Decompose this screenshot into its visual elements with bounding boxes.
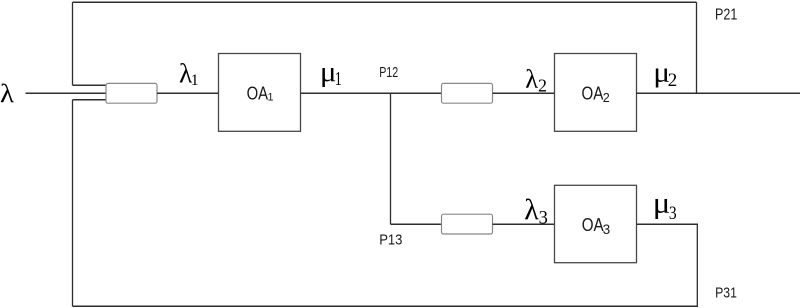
svg-text:1: 1 — [335, 68, 342, 90]
label lambda1 — [179, 59, 199, 89]
wire: stub from upper vertical into merge box — [73, 84, 107, 86]
wire: OA3 output horizontal — [637, 223, 699, 225]
block OA1 — [219, 54, 301, 132]
label lambda3 — [524, 193, 548, 228]
svg-text:OA: OA — [582, 214, 604, 235]
wire: top feedback P21 horizontal — [73, 1, 697, 3]
wire: P31 feedback vertical drop — [696, 224, 698, 306]
svg-text:λ: λ — [525, 64, 538, 94]
wire: P13 branch vertical — [390, 93, 392, 224]
svg-text:3: 3 — [603, 222, 611, 237]
wire: bottom feedback P31 horizontal — [73, 305, 699, 307]
merge box M1 (input combiner) — [106, 83, 157, 103]
svg-text:3: 3 — [539, 208, 548, 228]
svg-text:μ: μ — [320, 56, 337, 88]
svg-text:3: 3 — [669, 203, 677, 224]
svg-text:P12: P12 — [379, 64, 398, 81]
wire: merge box to OA1 — [157, 92, 219, 94]
label OA2 — [582, 83, 610, 105]
label mu3 — [653, 186, 677, 223]
svg-text:OA: OA — [582, 83, 605, 103]
svg-text:λ: λ — [0, 79, 15, 109]
merge box M2 (before OA2) — [442, 83, 493, 103]
label OA1 — [247, 83, 274, 103]
label mu2 — [653, 55, 677, 91]
label OA3 — [582, 214, 610, 237]
wire: OA1 output to splitter node P12 and on to merge box M2 — [301, 92, 442, 94]
svg-text:2: 2 — [538, 75, 547, 95]
wire: P21 feedback vertical riser — [696, 2, 698, 93]
wire: left vertical upper (top loop down to splitter) — [72, 2, 74, 85]
wire: merge box M3 to OA3 — [493, 223, 555, 225]
wire: lambda input line — [26, 92, 107, 94]
svg-text:P21: P21 — [715, 7, 737, 24]
merge box M3 (before OA3) — [442, 214, 493, 234]
wire: OA2 output to right edge — [636, 92, 800, 94]
wire: merge box M2 to OA2 — [493, 92, 555, 94]
wire: P13 branch horizontal into merge box M3 — [391, 223, 442, 225]
svg-text:1: 1 — [191, 72, 199, 89]
svg-text:2: 2 — [603, 91, 610, 105]
wire: left vertical lower (down to bottom loop) — [72, 100, 74, 307]
block OA2 — [555, 54, 637, 132]
svg-text:2: 2 — [668, 70, 678, 91]
svg-text:P13: P13 — [379, 231, 402, 248]
svg-text:OA: OA — [247, 83, 269, 103]
svg-text:λ: λ — [524, 193, 539, 226]
svg-text:P31: P31 — [715, 285, 737, 302]
wire: stub from lower vertical into merge box — [73, 99, 107, 101]
label lambda2 — [525, 64, 547, 96]
svg-text:1: 1 — [268, 92, 274, 104]
svg-text:μ: μ — [653, 186, 671, 219]
label mu1 — [320, 56, 342, 90]
block OA3 — [555, 185, 637, 262]
